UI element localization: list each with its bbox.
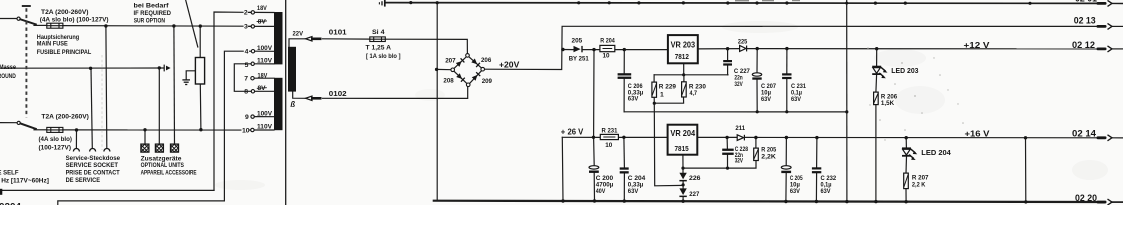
svg-text:10: 10 [603,53,610,60]
svg-text:1: 1 [660,91,664,98]
svg-text:8: 8 [244,89,248,96]
svg-text:63V: 63V [628,95,639,102]
svg-text:18V: 18V [258,72,268,79]
svg-text:R 204: R 204 [600,38,615,45]
svg-text:0101: 0101 [329,28,348,37]
svg-text:FUSIBLE PRINCIPAL: FUSIBLE PRINCIPAL [37,49,91,56]
svg-text:R 231: R 231 [602,127,618,134]
svg-text:+20V: +20V [499,59,520,69]
svg-text:PRISE DE CONTACT: PRISE DE CONTACT [66,170,121,177]
svg-text:7: 7 [244,76,248,83]
svg-text:OPTIONAL UNITS: OPTIONAL UNITS [141,162,185,169]
svg-text:110V: 110V [257,57,272,64]
svg-text:02 14: 02 14 [1072,128,1096,138]
svg-text:2,2 K: 2,2 K [912,181,926,188]
svg-text:LED 204: LED 204 [921,150,951,157]
svg-text:Service-Steckdose: Service-Steckdose [66,155,121,162]
svg-text:E SELF: E SELF [0,170,19,177]
svg-text:BY 251: BY 251 [569,55,589,62]
svg-text:100V: 100V [257,45,272,52]
svg-text:(100-127V): (100-127V) [39,144,72,151]
svg-text:T 1,25 A: T 1,25 A [366,45,392,52]
svg-text:205: 205 [572,38,583,45]
svg-text:ß: ß [290,100,295,109]
svg-text:VR 203: VR 203 [671,39,696,49]
svg-text:0204: 0204 [0,201,21,205]
svg-text:Hz [117V~60Hz]: Hz [117V~60Hz] [1,178,49,185]
svg-text:Si 4: Si 4 [372,29,385,36]
svg-text:207: 207 [445,57,456,64]
svg-text:02 12: 02 12 [1072,40,1095,50]
svg-text:208: 208 [443,77,453,84]
svg-text:(4A slo blo) (100-127V): (4A slo blo) (100-127V) [40,16,109,23]
svg-text:18V: 18V [257,5,267,12]
svg-text:7812: 7812 [675,52,689,61]
svg-text:40V: 40V [596,188,606,195]
svg-text:T2A (200-260V): T2A (200-260V) [41,9,89,16]
svg-text:63V: 63V [628,188,639,195]
svg-text:2,2K: 2,2K [761,153,776,160]
svg-text:bei Bedarf: bei Bedarf [134,2,170,9]
svg-text:(4A slo blo): (4A slo blo) [39,136,73,143]
svg-text:3: 3 [244,24,248,31]
svg-text:LED 203: LED 203 [891,68,918,75]
svg-text:63V: 63V [790,188,800,195]
svg-text:02 13: 02 13 [1074,15,1096,25]
svg-text:8V: 8V [258,85,266,92]
svg-text:7815: 7815 [675,144,690,153]
svg-text:[ 1A slo blo ]: [ 1A slo blo ] [366,53,401,60]
svg-text:SUR OPTION: SUR OPTION [134,18,165,25]
svg-text:DE SERVICE: DE SERVICE [66,177,101,184]
svg-text:4: 4 [245,49,249,56]
svg-text:R 229: R 229 [659,84,676,91]
svg-text:32V: 32V [734,81,743,88]
svg-text:22V: 22V [293,30,304,37]
svg-text:2: 2 [244,10,248,17]
svg-text:110V: 110V [257,124,272,131]
svg-text:0102: 0102 [329,89,347,98]
svg-text:SERVICE SOCKET: SERVICE SOCKET [66,162,119,169]
svg-text:APPAREIL ACCESSOIRE: APPAREIL ACCESSOIRE [141,169,197,176]
svg-text:63V: 63V [821,188,831,195]
svg-text:225: 225 [738,38,748,45]
svg-text:10: 10 [605,142,612,149]
svg-text:227: 227 [689,191,699,198]
svg-text:9: 9 [245,114,249,121]
svg-text:MAIN FUSE: MAIN FUSE [37,41,68,48]
svg-text:T2A (200-260V): T2A (200-260V) [41,113,89,120]
svg-text:4,7: 4,7 [690,90,698,97]
svg-text:IF REQUIRED: IF REQUIRED [134,10,172,17]
svg-text:GROUND: GROUND [0,73,16,80]
svg-text:211: 211 [735,125,745,132]
svg-text:226: 226 [689,175,701,182]
svg-text:5: 5 [245,62,249,69]
svg-text:1,5K: 1,5K [881,100,894,107]
svg-text:63V: 63V [761,96,771,103]
svg-text:02 01: 02 01 [1075,0,1097,4]
svg-text:VR 204: VR 204 [670,128,695,138]
svg-text:02 20: 02 20 [1075,193,1097,203]
svg-text:209: 209 [482,78,492,85]
svg-text:+ 26 V: + 26 V [561,126,584,136]
svg-text:32V: 32V [735,158,744,165]
svg-text:206: 206 [481,57,491,64]
svg-text:63V: 63V [791,96,801,103]
svg-text:+16 V: +16 V [965,128,991,138]
svg-text:100V: 100V [257,110,272,117]
svg-text:Masse: Masse [0,64,16,71]
svg-text:+12 V: +12 V [964,40,991,50]
svg-text:10: 10 [242,127,250,134]
